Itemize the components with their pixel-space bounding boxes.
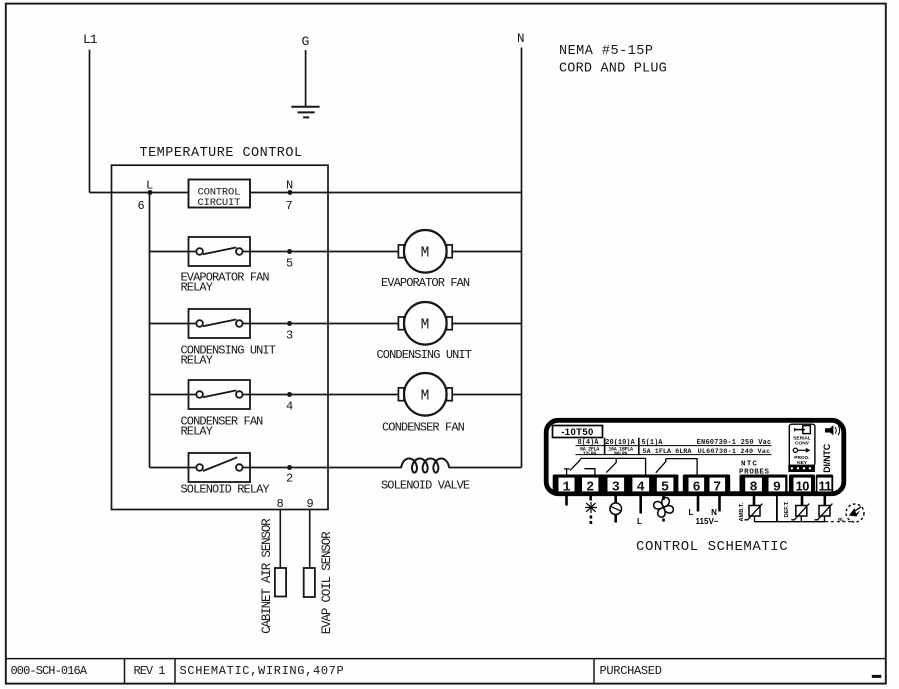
svg-text:SCHEMATIC,WIRING,407P: SCHEMATIC,WIRING,407P bbox=[180, 664, 345, 678]
controller model label -10T50 bbox=[553, 426, 603, 439]
svg-text:1: 1 bbox=[562, 481, 570, 496]
humidity option dashed circle bbox=[846, 504, 864, 522]
svg-text:12LRA: 12LRA bbox=[583, 451, 597, 457]
svg-text:9: 9 bbox=[307, 497, 314, 511]
svg-text:5: 5 bbox=[286, 257, 293, 271]
svg-text:10: 10 bbox=[796, 479, 810, 494]
svg-text:RELAY: RELAY bbox=[181, 425, 213, 439]
svg-text:6: 6 bbox=[138, 199, 145, 213]
wire row condenser fan bbox=[150, 394, 189, 396]
wire row solenoid bbox=[150, 467, 189, 469]
wire terminal 9 to evap coil sensor bbox=[309, 510, 311, 569]
terminal 7 stub + N label bbox=[711, 495, 719, 517]
relay contact 5 bbox=[656, 459, 666, 473]
relay contact 1-2 bbox=[564, 458, 595, 474]
svg-text:2: 2 bbox=[286, 472, 293, 486]
node 3 bbox=[286, 321, 293, 343]
NTC PROBES label bbox=[739, 461, 770, 477]
terminal 2 stub + defrost icon bbox=[585, 495, 597, 524]
wire L bus vertical bbox=[149, 193, 151, 468]
terminal block 6-7 bbox=[683, 475, 730, 495]
svg-text:L: L bbox=[146, 179, 153, 193]
relay contact 3 bbox=[606, 458, 616, 472]
wire relay to solenoid coil bbox=[250, 467, 402, 469]
svg-text:7: 7 bbox=[286, 199, 293, 213]
node 5 bbox=[286, 249, 293, 271]
cabinet air sensor bbox=[260, 518, 286, 634]
wire row condensing unit bbox=[150, 323, 189, 325]
svg-text:AMB.T.: AMB.T. bbox=[739, 502, 745, 521]
svg-text:CORD AND PLUG: CORD AND PLUG bbox=[559, 62, 667, 77]
temperature control enclosure bbox=[112, 146, 329, 510]
svg-text:4: 4 bbox=[637, 481, 645, 496]
svg-text:CONDENSER FAN: CONDENSER FAN bbox=[382, 421, 465, 435]
svg-text:-10T50: -10T50 bbox=[561, 427, 594, 438]
terminal numbers 8-9 bbox=[750, 481, 781, 496]
terminal numbers 6-7 bbox=[693, 481, 722, 496]
svg-text:N: N bbox=[517, 32, 524, 46]
wire relay to motor M1 bbox=[250, 251, 398, 253]
control circuit bbox=[150, 180, 250, 210]
wire L1 vertical bbox=[89, 50, 91, 193]
terminal block 11 bbox=[816, 475, 833, 495]
ratings dividers bbox=[604, 438, 606, 455]
ratings underline 2 bbox=[576, 454, 772, 456]
terminal 4 stub + L label bbox=[637, 495, 642, 526]
svg-text:CONDENSING UNIT: CONDENSING UNIT bbox=[377, 348, 472, 362]
terminal 10 stub + defrost probe bbox=[791, 495, 809, 522]
wire relay to motor M2 bbox=[250, 323, 398, 325]
svg-text:2: 2 bbox=[586, 481, 594, 496]
terminal block 1-5 bbox=[553, 475, 679, 495]
motor M1 evaporator fan bbox=[381, 230, 470, 290]
wire control circuit to node 7 bbox=[250, 192, 290, 194]
ratings row 1 bbox=[577, 439, 771, 447]
contact bus to terminal 6 bbox=[666, 459, 697, 475]
svg-text:115V~: 115V~ bbox=[696, 517, 719, 526]
svg-text:CONTROL SCHEMATIC: CONTROL SCHEMATIC bbox=[636, 539, 788, 555]
svg-text:7: 7 bbox=[713, 481, 721, 496]
svg-text:000-SCH-016A: 000-SCH-016A bbox=[11, 664, 88, 678]
svg-text:PURCHASED: PURCHASED bbox=[600, 664, 662, 678]
wire L1 to node 6 bbox=[90, 192, 151, 194]
svg-text:DI/NTC: DI/NTC bbox=[822, 443, 832, 472]
terminal 5 stub + fan icon bbox=[654, 495, 674, 522]
svg-text:NTC: NTC bbox=[741, 461, 758, 469]
probe bus bbox=[755, 521, 826, 523]
svg-text:REV 1: REV 1 bbox=[134, 664, 166, 678]
svg-text:M: M bbox=[421, 389, 429, 405]
wire motor M2 to N rail bbox=[452, 323, 521, 325]
terminal 9 stub to probe bus bbox=[776, 495, 778, 522]
svg-text:CIRCUIT: CIRCUIT bbox=[198, 197, 241, 209]
serial conv / prog key box bbox=[789, 424, 815, 466]
svg-text:4: 4 bbox=[286, 400, 293, 414]
ratings row 2 bbox=[580, 447, 770, 457]
wire motor M3 to N rail bbox=[452, 394, 521, 396]
wire relay to motor M3 bbox=[250, 394, 398, 396]
svg-text:L: L bbox=[637, 517, 642, 526]
svg-text:NEMA #5-15P: NEMA #5-15P bbox=[559, 44, 653, 59]
svg-text:CONV: CONV bbox=[795, 440, 810, 446]
svg-text:SOLENOID VALVE: SOLENOID VALVE bbox=[381, 478, 470, 492]
svg-text:11: 11 bbox=[819, 479, 832, 494]
svg-text:L: L bbox=[689, 508, 694, 517]
relay solenoid relay bbox=[189, 453, 251, 482]
svg-text:N: N bbox=[286, 179, 293, 193]
svg-text:G: G bbox=[302, 34, 309, 49]
svg-text:RELAY: RELAY bbox=[181, 281, 213, 295]
wire motor M1 to N rail bbox=[452, 251, 521, 253]
svg-text:RELAY: RELAY bbox=[181, 354, 213, 368]
svg-text:9: 9 bbox=[773, 481, 781, 496]
svg-text:3: 3 bbox=[612, 481, 620, 496]
node 4 bbox=[286, 392, 293, 414]
node 2 bbox=[286, 465, 293, 486]
prog key connector bbox=[788, 465, 815, 472]
svg-text:EVAP COIL SENSOR: EVAP COIL SENSOR bbox=[320, 531, 334, 634]
svg-text:8: 8 bbox=[750, 481, 758, 496]
svg-text:5: 5 bbox=[661, 481, 669, 496]
wire terminal 8 to cabinet air sensor bbox=[279, 510, 281, 569]
controller -10T50 outline bbox=[546, 420, 844, 493]
relay condenser fan relay bbox=[189, 380, 251, 409]
relay condensing unit relay bbox=[189, 309, 251, 338]
terminal 6 stub + L label bbox=[689, 495, 698, 517]
evap coil sensor bbox=[304, 531, 334, 634]
terminal 3 stub + compressor icon bbox=[610, 495, 622, 523]
ratings underline 1 bbox=[576, 445, 772, 447]
svg-text:PROBES: PROBES bbox=[739, 469, 770, 477]
relay evaporator fan relay bbox=[189, 237, 251, 266]
wire row evaporator fan bbox=[150, 251, 189, 253]
wire solenoid coil to N rail bbox=[449, 467, 522, 469]
wire node 7 to N rail bbox=[290, 192, 522, 194]
motor M2 condensing unit bbox=[377, 302, 472, 362]
node 6 (L) bbox=[138, 179, 154, 214]
buzzer icon bbox=[825, 425, 840, 435]
solenoid valve coil bbox=[381, 458, 470, 492]
wire N rail bbox=[521, 48, 523, 468]
svg-text:6: 6 bbox=[693, 481, 701, 496]
svg-text:M: M bbox=[421, 246, 429, 262]
terminal 11 stub + DI probe bbox=[815, 495, 833, 522]
terminal numbers 1-5 bbox=[562, 481, 669, 496]
svg-text:TEMPERATURE CONTROL: TEMPERATURE CONTROL bbox=[140, 146, 303, 161]
svg-text:L1: L1 bbox=[83, 32, 98, 47]
terminal block 10 bbox=[789, 475, 815, 495]
dashed link to humidity option bbox=[825, 521, 851, 523]
terminal 1 stub bbox=[565, 495, 568, 506]
svg-text:EVAPORATOR FAN: EVAPORATOR FAN bbox=[381, 276, 470, 290]
contact bus to terminal 4 bbox=[581, 458, 646, 474]
svg-text:96LRA: 96LRA bbox=[614, 451, 628, 457]
svg-text:SOLENOID RELAY: SOLENOID RELAY bbox=[181, 483, 270, 497]
ground bbox=[291, 107, 319, 118]
svg-text:8: 8 bbox=[277, 497, 284, 511]
svg-text:M: M bbox=[421, 318, 429, 334]
node 7 (N) bbox=[286, 179, 294, 214]
motor M3 condenser fan bbox=[382, 373, 465, 435]
svg-text:3: 3 bbox=[286, 329, 293, 343]
terminal 8 stub + ambient probe bbox=[745, 495, 763, 522]
svg-text:CABINET AIR SENSOR: CABINET AIR SENSOR bbox=[260, 518, 274, 634]
svg-text:N: N bbox=[711, 508, 717, 517]
wire G vertical bbox=[305, 50, 307, 107]
terminal block 8-9 bbox=[740, 475, 788, 495]
svg-text:DEF.T.: DEF.T. bbox=[784, 501, 790, 518]
